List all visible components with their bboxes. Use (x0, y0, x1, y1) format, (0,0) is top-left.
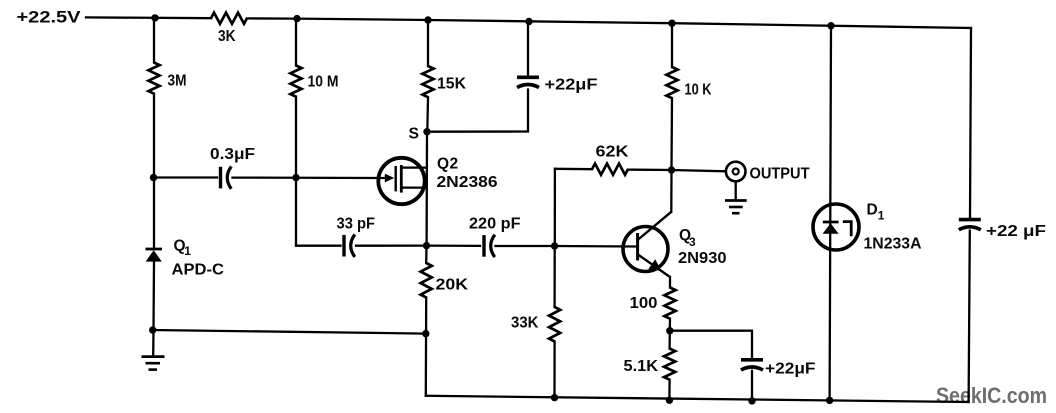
svg-text:+22 μF: +22 μF (986, 223, 1046, 240)
wire 22uF top lead (527, 22, 529, 76)
svg-text:62K: 62K (596, 144, 630, 161)
wire 100 to junction (669, 319, 672, 331)
wire 15K to S node (426, 97, 429, 132)
wire 15K top lead (427, 20, 429, 66)
wire right edge vertical bottom (969, 231, 970, 402)
svg-text:+22μF: +22μF (545, 77, 598, 94)
wire 62K left vertical (554, 169, 556, 246)
junction 3M line - 0.3uF wire (150, 174, 157, 181)
svg-text:D: D (867, 202, 878, 219)
junction rail-3M (151, 14, 158, 21)
wire D1 vertical (830, 26, 831, 401)
wire 220pF left (427, 244, 481, 247)
resistor 15K (422, 66, 433, 97)
wire 10K top lead (671, 23, 673, 67)
capacitor 220pF (484, 235, 495, 257)
resistor 20K (425, 246, 428, 263)
wire collector vertical (670, 170, 673, 212)
resistor 5.1K (664, 349, 675, 380)
junction bottom cap (748, 397, 755, 404)
svg-text:3M: 3M (168, 72, 187, 89)
resistor 3K (211, 13, 247, 24)
wire 0.3uF left (154, 176, 217, 178)
svg-text:10 M: 10 M (308, 74, 339, 91)
diode D1 1N233A (813, 204, 859, 250)
svg-text:33K: 33K (511, 314, 539, 331)
junction 62K-10K-collector-output (668, 166, 675, 173)
wire 5.1K top lead (668, 331, 671, 349)
capacitor +22uF right (959, 220, 981, 230)
svg-text:3: 3 (689, 235, 696, 249)
transistor Q3 2N930 (623, 212, 671, 277)
capacitor +22uF bottom (741, 360, 763, 370)
svg-text:0.3μF: 0.3μF (210, 146, 255, 163)
svg-text:Q2: Q2 (437, 155, 459, 172)
wire 33pF right (356, 244, 426, 246)
svg-text:APD-C: APD-C (172, 261, 225, 278)
wire 10K bottom lead (670, 98, 673, 170)
ground output (725, 182, 747, 214)
resistor 62K (592, 164, 628, 175)
wire to output (672, 170, 726, 171)
junction rail-10M (293, 15, 300, 22)
wire bottom rail (426, 396, 969, 402)
junction bottom 5.1K (666, 397, 673, 404)
junction Q1-bottom wire (149, 326, 156, 333)
svg-text:15K: 15K (437, 75, 467, 92)
junction emitter-5.1K-cap (666, 327, 673, 334)
wire 62K right lead (628, 168, 672, 171)
svg-text:SeekIC.com: SeekIC.com (936, 383, 1047, 408)
resistor 10M (290, 66, 301, 97)
svg-text:3K: 3K (218, 28, 236, 45)
wire 0.3uF to gate (233, 176, 387, 179)
transistor Q2 2N2386 (FET) (378, 158, 427, 204)
wire S to cap branch (427, 90, 528, 132)
wire bottom cap lead (751, 371, 753, 401)
wire 33pF left (296, 245, 341, 247)
wire 5.1K bottom lead (668, 380, 670, 401)
junction rail-D1 (827, 22, 834, 29)
terminal OUTPUT (726, 162, 746, 182)
svg-text:2N930: 2N930 (678, 250, 727, 267)
resistor 100 (664, 288, 675, 319)
svg-text:2N2386: 2N2386 (437, 174, 498, 191)
junction 33pF-220pF-20K (423, 242, 430, 249)
wire to bottom 22uF (670, 331, 752, 358)
junction rail-15K (424, 16, 431, 23)
capacitor 33pF (344, 235, 355, 257)
junction 220pF-62K-33K (551, 242, 558, 249)
wire 20K bottom to rail (425, 298, 428, 396)
wire top supply rail (86, 16, 211, 19)
node S (423, 128, 430, 135)
svg-text:S: S (409, 125, 420, 142)
capacitor +22uF top (517, 77, 539, 87)
junction bottom 33K (551, 394, 558, 401)
wire 33K bottom lead (553, 342, 555, 398)
wire 62K left lead (555, 168, 592, 171)
wire Q1 node to 20K line (153, 330, 426, 334)
svg-text:1: 1 (184, 244, 191, 258)
svg-text:OUTPUT: OUTPUT (750, 166, 811, 183)
wire 3M to Q1 (153, 94, 155, 249)
photodiode Q1 APD-C (146, 249, 163, 262)
wire right edge vertical top (970, 28, 971, 218)
wire emitter lead (669, 277, 671, 288)
svg-text:+22.5V: +22.5V (17, 9, 81, 27)
wire 220pF right to Q3 base (496, 245, 637, 248)
junction Q1 wire - 20K line (422, 330, 429, 337)
svg-text:+22μF: +22μF (765, 360, 816, 377)
svg-text:1: 1 (878, 209, 885, 223)
wire 10M top lead (295, 19, 297, 66)
junction bottom D1 (826, 397, 833, 404)
junction 10M-gate wire (292, 174, 299, 181)
wire 3M top lead (153, 18, 155, 63)
svg-text:10 K: 10 K (685, 82, 713, 99)
capacitor 0.3uF (221, 166, 232, 188)
resistor 33K (549, 307, 560, 342)
wire Q2 drain-source vertical (425, 132, 428, 246)
ground left (142, 357, 165, 370)
svg-text:220 pF: 220 pF (469, 215, 521, 232)
svg-text:33 pF: 33 pF (337, 215, 376, 232)
wire Q1 to ground node (152, 262, 155, 356)
svg-text:5.1K: 5.1K (624, 358, 659, 375)
wire 10M down to 33pF row (295, 97, 297, 246)
svg-text:20K: 20K (436, 277, 469, 294)
junction rail-10K (668, 20, 675, 27)
resistor 10K (666, 67, 677, 98)
junction rail-22uF (525, 18, 532, 25)
svg-text:1N233A: 1N233A (864, 235, 922, 252)
wire 33K top lead (553, 246, 555, 307)
svg-text:100: 100 (630, 295, 658, 312)
resistor 3M (148, 63, 159, 94)
